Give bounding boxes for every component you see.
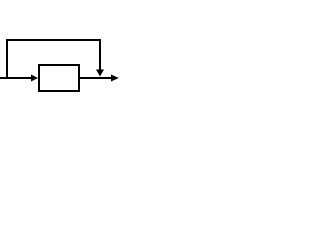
wire output (79, 77, 112, 79)
wire feedforward left vertical (6, 39, 8, 78)
wire input (0, 77, 32, 79)
arrowhead output right (111, 75, 119, 82)
block G1 (39, 65, 79, 91)
wire feedforward top (6, 39, 101, 41)
node input junction (6, 77, 8, 79)
arrowhead feedforward down (96, 70, 104, 77)
arrowhead into block (31, 75, 38, 82)
wire feedforward right vertical (99, 39, 101, 70)
